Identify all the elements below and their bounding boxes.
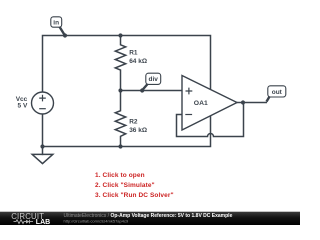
svg-text:3. Click "Run DC Solver": 3. Click "Run DC Solver" (95, 192, 174, 199)
svg-text:2. Click "Simulate": 2. Click "Simulate" (95, 182, 155, 189)
svg-text:R1: R1 (129, 50, 138, 57)
svg-text:OA1: OA1 (194, 100, 208, 107)
svg-text:out: out (272, 89, 283, 96)
svg-text:http://circuitlab.com/c9z4mk57: http://circuitlab.com/c9z4mk57ap4c9 (64, 219, 129, 224)
svg-text:1. Click to open: 1. Click to open (95, 172, 145, 179)
svg-text:36 kΩ: 36 kΩ (129, 127, 147, 134)
svg-text:LAB: LAB (36, 219, 50, 225)
svg-text:R2: R2 (129, 118, 138, 125)
svg-text:in: in (53, 19, 59, 26)
svg-text:div: div (148, 76, 158, 83)
svg-text:5 V: 5 V (18, 103, 28, 110)
svg-text:64 kΩ: 64 kΩ (129, 58, 147, 65)
